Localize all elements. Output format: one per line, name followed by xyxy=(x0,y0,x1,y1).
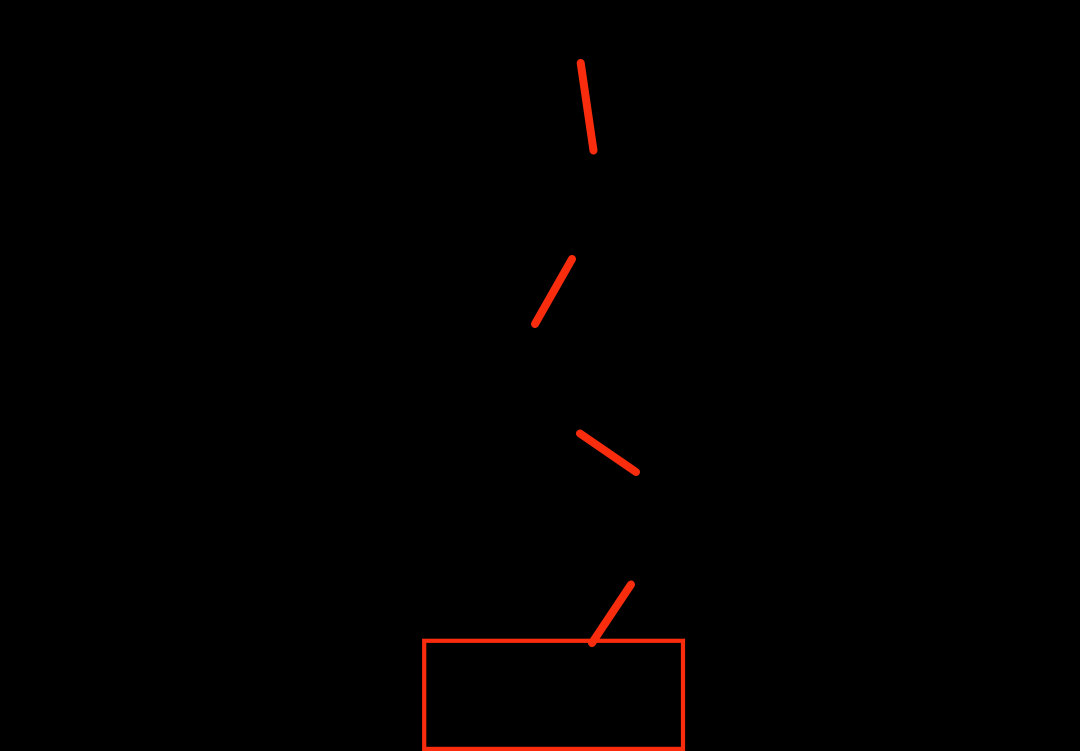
dash stroke 3 (down-right diagonal) xyxy=(580,434,636,473)
dash stroke 1 (top, near-vertical) xyxy=(581,63,594,151)
dash stroke 4 (into rectangle) xyxy=(592,585,631,644)
rectangle outline xyxy=(424,641,683,749)
dash stroke 2 (down-left diagonal) xyxy=(535,259,572,324)
